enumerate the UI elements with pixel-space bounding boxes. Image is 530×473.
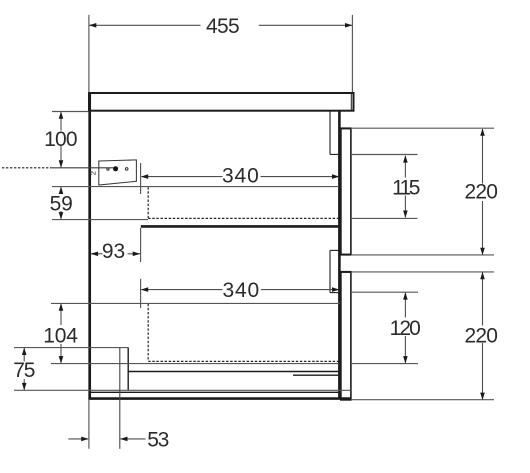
svg-text:120: 120 — [390, 317, 421, 340]
svg-text:340: 340 — [222, 165, 259, 188]
svg-text:53: 53 — [147, 428, 169, 451]
svg-text:115: 115 — [392, 176, 420, 199]
svg-text:75: 75 — [13, 359, 35, 382]
svg-text:59: 59 — [50, 193, 73, 216]
svg-text:2: 2 — [88, 171, 97, 175]
svg-text:100: 100 — [44, 128, 77, 151]
svg-text:340: 340 — [222, 279, 259, 302]
svg-text:455: 455 — [206, 15, 240, 38]
svg-text:93: 93 — [102, 240, 125, 263]
svg-text:220: 220 — [465, 325, 498, 348]
svg-text:104: 104 — [43, 324, 78, 347]
svg-text:220: 220 — [465, 180, 498, 203]
